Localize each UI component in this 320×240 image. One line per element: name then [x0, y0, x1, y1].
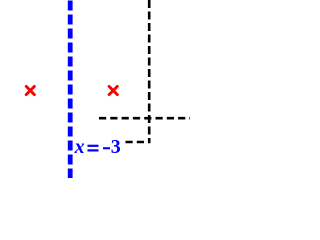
black dashed short horizontal segment — [126, 141, 151, 144]
asymptote line x=-3 (blue dashed vertical) — [68, 1, 73, 179]
label x = -3 (blue) : equals sign top bar — [88, 145, 99, 147]
label x = -3 (blue) : equals sign bottom bar — [88, 149, 99, 151]
label x = -3 (blue) : minus bar — [103, 147, 110, 149]
black dashed horizontal guide line — [99, 117, 190, 120]
marker X1 (red cross left) — [26, 86, 34, 94]
svg-text:x: x — [74, 136, 85, 158]
marker X2 (red cross right) — [109, 86, 117, 94]
svg-text:3: 3 — [111, 136, 121, 158]
black dashed vertical guide line — [148, 0, 151, 143]
